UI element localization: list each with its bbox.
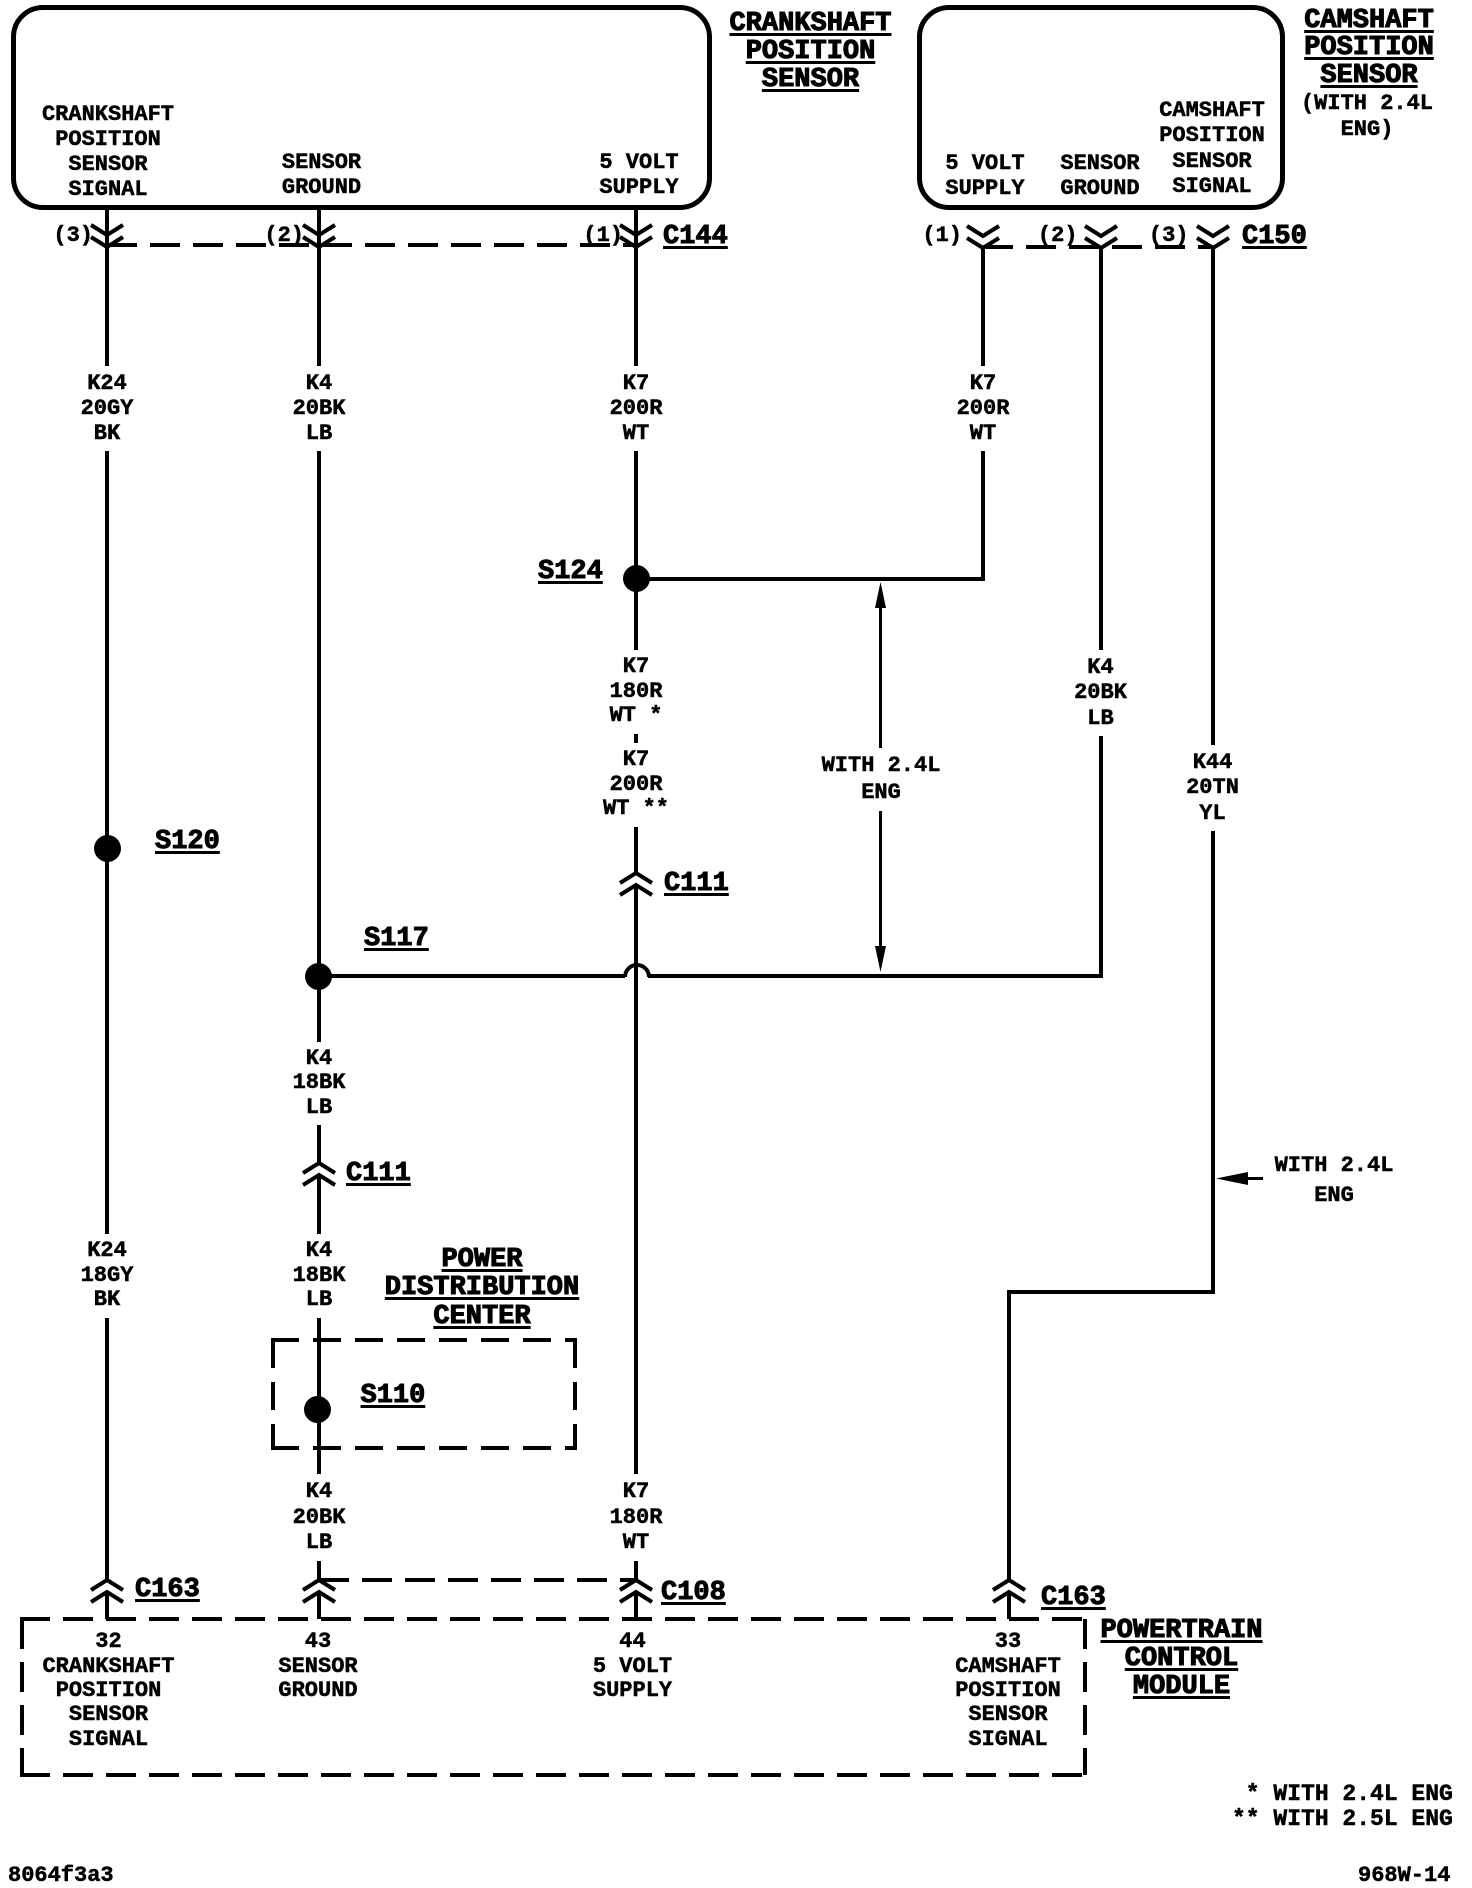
connector C144 pin 3 symbol xyxy=(89,223,125,249)
connector C150 label xyxy=(1242,223,1307,251)
pin number (2) xyxy=(264,223,304,248)
connector C150 pin 1 symbol xyxy=(965,224,1001,250)
splice S117 label xyxy=(364,925,429,953)
wire: camshaft signal horizontal jog xyxy=(1007,1290,1215,1294)
PCM box top edge xyxy=(20,1617,1087,1621)
splice S120 junction dot xyxy=(94,835,121,862)
camshaft position sensor title xyxy=(1304,8,1434,91)
wire: sensor ground K4 lower (C111 to C108-43) xyxy=(317,1176,321,1581)
connector C111 label (ground wire) xyxy=(346,1160,411,1188)
connector C111 symbol (5 volt wire) xyxy=(618,871,654,897)
wire label K44 20TN YL xyxy=(1179,745,1246,832)
2.4L range arrow upper head xyxy=(875,582,886,609)
crankshaft sensor ground pin name xyxy=(282,150,361,200)
page code 968W-14 xyxy=(1358,1863,1450,1888)
connector C150 dashed line xyxy=(983,245,1213,249)
pin number (2) xyxy=(1038,223,1078,248)
wire label K4 20BK LB xyxy=(286,366,353,451)
crankshaft position sensor box xyxy=(11,5,712,210)
camshaft 5 volt supply pin name xyxy=(945,151,1024,201)
camshaft sensor ground pin name xyxy=(1060,151,1139,201)
camshaft position sensor box xyxy=(917,5,1285,210)
splice S117 junction dot xyxy=(305,963,332,990)
PCM pin 43 sensor ground xyxy=(278,1630,357,1703)
connector C163 pin 33 symbol xyxy=(991,1578,1027,1604)
splice S124 label xyxy=(538,558,603,586)
PCM box left edge xyxy=(20,1619,24,1776)
wire: camshaft ground K4 vertical (C150-2 to S117 line) xyxy=(1099,246,1103,976)
pin number (1) xyxy=(922,223,962,248)
PDC box right edge xyxy=(573,1340,577,1448)
wire: 5 volt supply stub below C108 xyxy=(634,1593,638,1619)
wire: camshaft 5 volt K7 vertical (C150-1 to S124) xyxy=(981,246,985,579)
crankshaft sensor signal pin name xyxy=(42,102,174,202)
wire label K4 18BK LB (above C111) xyxy=(286,1042,353,1126)
camshaft sensor signal pin name xyxy=(1159,98,1265,200)
wire: S117 horizontal right segment xyxy=(648,974,1103,978)
splice S120 label xyxy=(155,828,220,856)
2.4L range arrow shaft xyxy=(879,602,882,950)
2.4L note arrow head xyxy=(1216,1171,1248,1186)
splice S110 label xyxy=(361,1382,426,1410)
wire: 5 volt supply K7 upper (C144-1 to C111) xyxy=(634,210,638,873)
with 2.4L eng note (range arrow) xyxy=(815,748,948,811)
connector C108 label xyxy=(661,1579,726,1607)
wire: sensor ground stub below C108 xyxy=(317,1593,321,1619)
wire label K24 18GY BK xyxy=(74,1234,141,1318)
PDC box left edge xyxy=(271,1340,275,1448)
powertrain control module title xyxy=(1100,1617,1262,1701)
crankshaft position sensor title xyxy=(729,10,891,94)
connector C163 label (right) xyxy=(1041,1584,1106,1612)
wire label K7 180R WT (lower) xyxy=(603,1474,670,1561)
connector C144 pin 2 symbol xyxy=(301,223,337,249)
PDC box top edge xyxy=(271,1338,577,1342)
pin number (3) xyxy=(1149,223,1189,248)
footnote engine qualifiers xyxy=(1232,1782,1453,1832)
connector C144 label xyxy=(663,223,728,251)
connector C111 label (5 volt wire) xyxy=(664,870,729,898)
wire label K24 20GY BK xyxy=(74,366,141,451)
wire: sensor ground K4 upper (C144-2 to C111) xyxy=(317,210,321,1163)
wire: S124 horizontal to camshaft 5 volt xyxy=(649,577,985,581)
connector C150 pin 2 symbol xyxy=(1083,224,1119,250)
wire: camshaft signal stub below C163 xyxy=(1007,1593,1011,1619)
crankshaft 5 volt supply pin name xyxy=(599,150,678,200)
connector C108 pin 43 symbol xyxy=(301,1578,337,1604)
wire: S117 horizontal left segment xyxy=(331,974,625,978)
PCM pin 32 crankshaft position sensor signal xyxy=(42,1630,174,1752)
2.4L note arrow tail xyxy=(1246,1177,1263,1180)
connector C163 label (left) xyxy=(135,1576,200,1604)
wire label K7 180R WT* xyxy=(603,650,670,734)
splice S110 junction dot xyxy=(304,1396,331,1423)
wire label K7 200R WT xyxy=(603,366,670,451)
wire: crankshaft signal K24 (C144-3 to C163-32) xyxy=(105,210,109,1580)
with 2.4L eng note (arrow) xyxy=(1275,1151,1394,1210)
connector C111 symbol (ground wire) xyxy=(301,1161,337,1187)
PCM box right edge xyxy=(1083,1619,1087,1776)
connector C150 pin 3 symbol xyxy=(1195,224,1231,250)
pin number (1) xyxy=(583,223,623,248)
diagram id 8064f3a3 xyxy=(8,1863,114,1888)
wire: camshaft signal K44 vertical (C150-3 down) xyxy=(1211,246,1215,1293)
pin number (3) xyxy=(53,223,93,248)
wire label K4 20BK LB (camshaft ground) xyxy=(1067,650,1134,737)
wire label K7 200R WT (camshaft) xyxy=(950,366,1017,451)
wire label K4 18BK LB (below C111) xyxy=(286,1234,353,1318)
wire: crankshaft signal stub below C163 xyxy=(105,1593,109,1619)
connector C108 dashed line xyxy=(319,1578,636,1582)
wire label K4 20BK LB (below PDC) xyxy=(286,1474,353,1561)
connector C108 pin 44 symbol xyxy=(618,1578,654,1604)
wire hop over 5 volt supply wire xyxy=(623,963,652,979)
wire label K7 200R WT** xyxy=(596,743,676,827)
PCM box bottom edge xyxy=(20,1773,1087,1777)
connector C163 pin 32 symbol xyxy=(89,1578,125,1604)
PDC box bottom edge xyxy=(271,1446,577,1450)
splice S124 junction dot xyxy=(623,565,650,592)
PCM pin 44 5 volt supply xyxy=(593,1630,672,1703)
camshaft title qualifier (with 2.4L eng) xyxy=(1301,91,1433,143)
power distribution center title xyxy=(385,1246,579,1331)
connector C144 pin 1 symbol xyxy=(618,223,654,249)
wire: 5 volt supply K7 lower (C111 to C108-44) xyxy=(634,886,638,1581)
PCM pin 33 camshaft position sensor signal xyxy=(955,1630,1061,1752)
wire: camshaft signal vertical to C163-33 xyxy=(1007,1292,1011,1580)
2.4L range arrow lower head xyxy=(875,945,886,972)
connector C144 dashed line xyxy=(107,243,636,247)
